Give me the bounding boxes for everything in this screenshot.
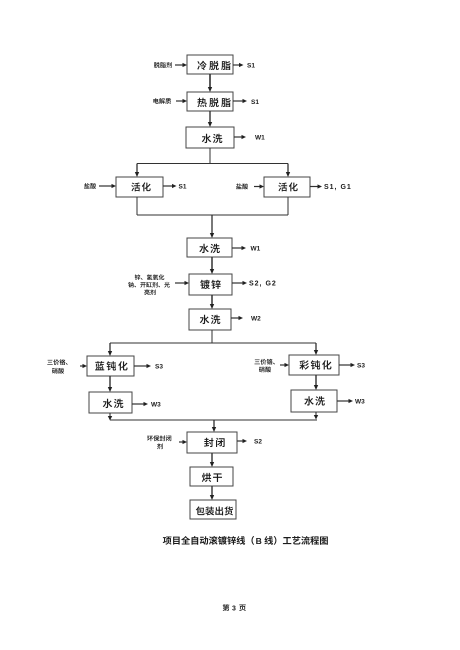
svg-text:S3: S3 [155,363,163,370]
svg-text:S1: S1 [251,99,259,106]
svg-text:W1: W1 [255,134,265,141]
svg-text:3: 3 [232,605,236,612]
svg-text:W3: W3 [355,398,365,405]
svg-text:W1: W1 [251,245,261,252]
svg-text:S1, G1: S1, G1 [324,184,352,191]
svg-text:B: B [256,536,262,546]
svg-text:S2, G2: S2, G2 [249,281,277,288]
svg-text:S1: S1 [179,183,187,190]
svg-text:S2: S2 [254,438,262,445]
svg-text:W3: W3 [151,401,161,408]
svg-text:S1: S1 [247,62,255,69]
svg-text:S3: S3 [357,362,365,369]
svg-text:W2: W2 [251,315,261,322]
